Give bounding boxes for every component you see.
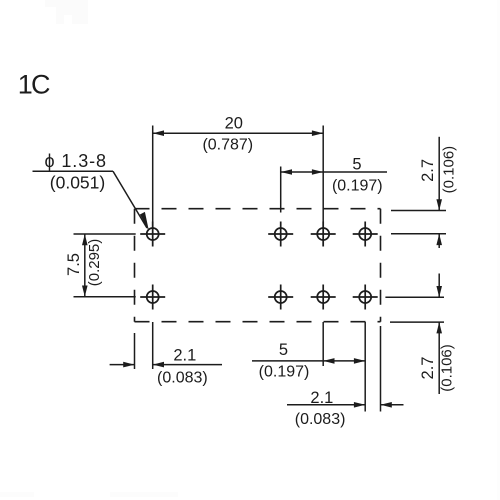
dimension 2.1 (0.083) bottom right bbox=[287, 326, 404, 428]
dimension 2.7 (0.106) right top bbox=[391, 137, 457, 248]
hole H5 (row2 col1) bbox=[140, 285, 165, 310]
dimension 2.1 (0.083) bottom left bbox=[110, 322, 222, 387]
dimension 5 (0.197) bottom bbox=[252, 322, 365, 412]
dimension 7.5 (0.295) left bbox=[65, 234, 136, 297]
dimension 20 (0.787) top bbox=[153, 115, 324, 247]
faint scan artifact bottom-left bbox=[0, 492, 34, 497]
svg-text:1C: 1C bbox=[18, 70, 50, 100]
svg-text:2.1: 2.1 bbox=[310, 389, 333, 407]
svg-text:7.5: 7.5 bbox=[65, 253, 83, 276]
svg-text:20: 20 bbox=[225, 115, 243, 133]
svg-text:2.7: 2.7 bbox=[419, 159, 437, 182]
svg-text:5: 5 bbox=[352, 156, 361, 174]
hole H3 (row1 col3) bbox=[311, 222, 336, 247]
hole H2 (row1 col2) bbox=[268, 222, 293, 247]
svg-text:5: 5 bbox=[279, 341, 288, 359]
svg-text:(0.083): (0.083) bbox=[295, 411, 346, 428]
dimension 5 (0.197) top bbox=[281, 156, 387, 213]
hole H7 (row2 col3) bbox=[311, 285, 336, 310]
hole diameter callout phi 1.3-8 (0.051) bbox=[33, 151, 150, 231]
svg-text:(0.787): (0.787) bbox=[202, 137, 253, 154]
svg-text:(0.106): (0.106) bbox=[440, 146, 457, 194]
svg-text:2.7: 2.7 bbox=[419, 357, 437, 380]
hole H1 (row1 col1) bbox=[140, 222, 165, 247]
svg-text:(0.051): (0.051) bbox=[50, 173, 105, 193]
faint scan artifact top-left bbox=[45, 0, 88, 24]
svg-text:(0.106): (0.106) bbox=[439, 344, 456, 392]
relay outline (dashed rectangle) bbox=[135, 209, 381, 322]
svg-text:(0.197): (0.197) bbox=[332, 178, 383, 195]
svg-text:(0.197): (0.197) bbox=[259, 364, 310, 381]
hole H6 (row2 col2) bbox=[268, 285, 293, 310]
dimension 2.7 (0.106) right bottom bbox=[385, 274, 455, 395]
svg-text:ϕ 1.3-8: ϕ 1.3-8 bbox=[45, 151, 107, 171]
svg-text:(0.295): (0.295) bbox=[86, 239, 103, 287]
faint scan artifact right edge bbox=[497, 0, 500, 500]
svg-text:(0.083): (0.083) bbox=[157, 370, 208, 387]
hole H4 (row1 col4) bbox=[353, 222, 378, 247]
hole H8 (row2 col4) bbox=[353, 285, 378, 310]
svg-text:2.1: 2.1 bbox=[173, 347, 196, 365]
